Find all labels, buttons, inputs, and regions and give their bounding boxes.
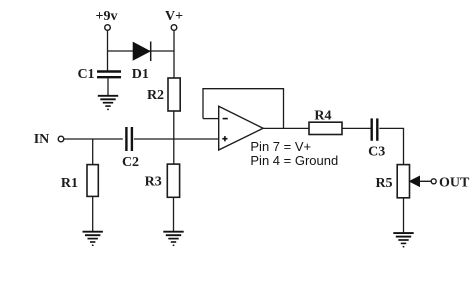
svg-text:C1: C1 — [77, 67, 94, 82]
wire minus input — [203, 118, 219, 120]
node V+ terminal — [165, 9, 183, 30]
svg-text:C3: C3 — [368, 145, 385, 160]
node +9v terminal — [96, 9, 118, 30]
op-amp U1 — [219, 106, 263, 150]
capacitor C2 — [122, 127, 139, 170]
node OUT terminal — [431, 176, 470, 191]
wiper arrow — [410, 176, 432, 186]
resistor R4 — [309, 108, 342, 134]
capacitor C3 — [368, 118, 385, 159]
wire R1 branch — [92, 139, 94, 165]
svg-text:R2: R2 — [147, 88, 164, 103]
svg-text:IN: IN — [34, 132, 50, 147]
ground (R3) — [163, 232, 183, 246]
svg-text:V+: V+ — [165, 9, 183, 24]
svg-text:D1: D1 — [132, 67, 149, 82]
wire C3 to R5 — [379, 128, 403, 164]
ground (R1) — [83, 232, 103, 246]
wire R3 to ground — [173, 197, 175, 231]
wire V+ vertical — [173, 30, 175, 78]
resistor R3 — [145, 164, 180, 197]
svg-text:R4: R4 — [314, 108, 331, 123]
ground (R5) — [393, 233, 413, 247]
wire R1 to ground — [92, 196, 94, 231]
resistor R5 (potentiometer) — [375, 165, 409, 198]
wire C1 to ground — [107, 78, 109, 95]
wire main rail to R3 — [173, 139, 175, 165]
resistor R1 — [61, 165, 98, 197]
diode D1 — [132, 42, 151, 83]
node IN terminal — [34, 132, 64, 147]
svg-text:R5: R5 — [375, 176, 392, 191]
svg-text:C2: C2 — [122, 155, 139, 170]
wire R4 to C3 — [342, 127, 371, 129]
wire +9v vertical — [107, 30, 109, 70]
ground (C1) — [98, 96, 118, 110]
wire C2 to op-amp + input — [134, 138, 219, 140]
svg-text:+9v: +9v — [96, 9, 118, 24]
wire output to R4 — [263, 127, 309, 129]
svg-text:R3: R3 — [145, 175, 162, 190]
wire IN to C2 — [64, 138, 123, 140]
svg-text:R1: R1 — [61, 176, 78, 191]
wire R2 to main rail — [173, 111, 175, 139]
svg-text:OUT: OUT — [439, 176, 470, 191]
svg-text:Pin 4 = Ground: Pin 4 = Ground — [250, 153, 338, 168]
wire feedback loop — [203, 89, 284, 129]
wire diode rail — [108, 50, 175, 52]
svg-text:Pin 7 = V+: Pin 7 = V+ — [250, 139, 311, 154]
pin note text — [250, 139, 338, 168]
resistor R2 — [147, 78, 180, 111]
capacitor C1 — [77, 67, 121, 82]
wire R5 to ground — [403, 198, 405, 233]
